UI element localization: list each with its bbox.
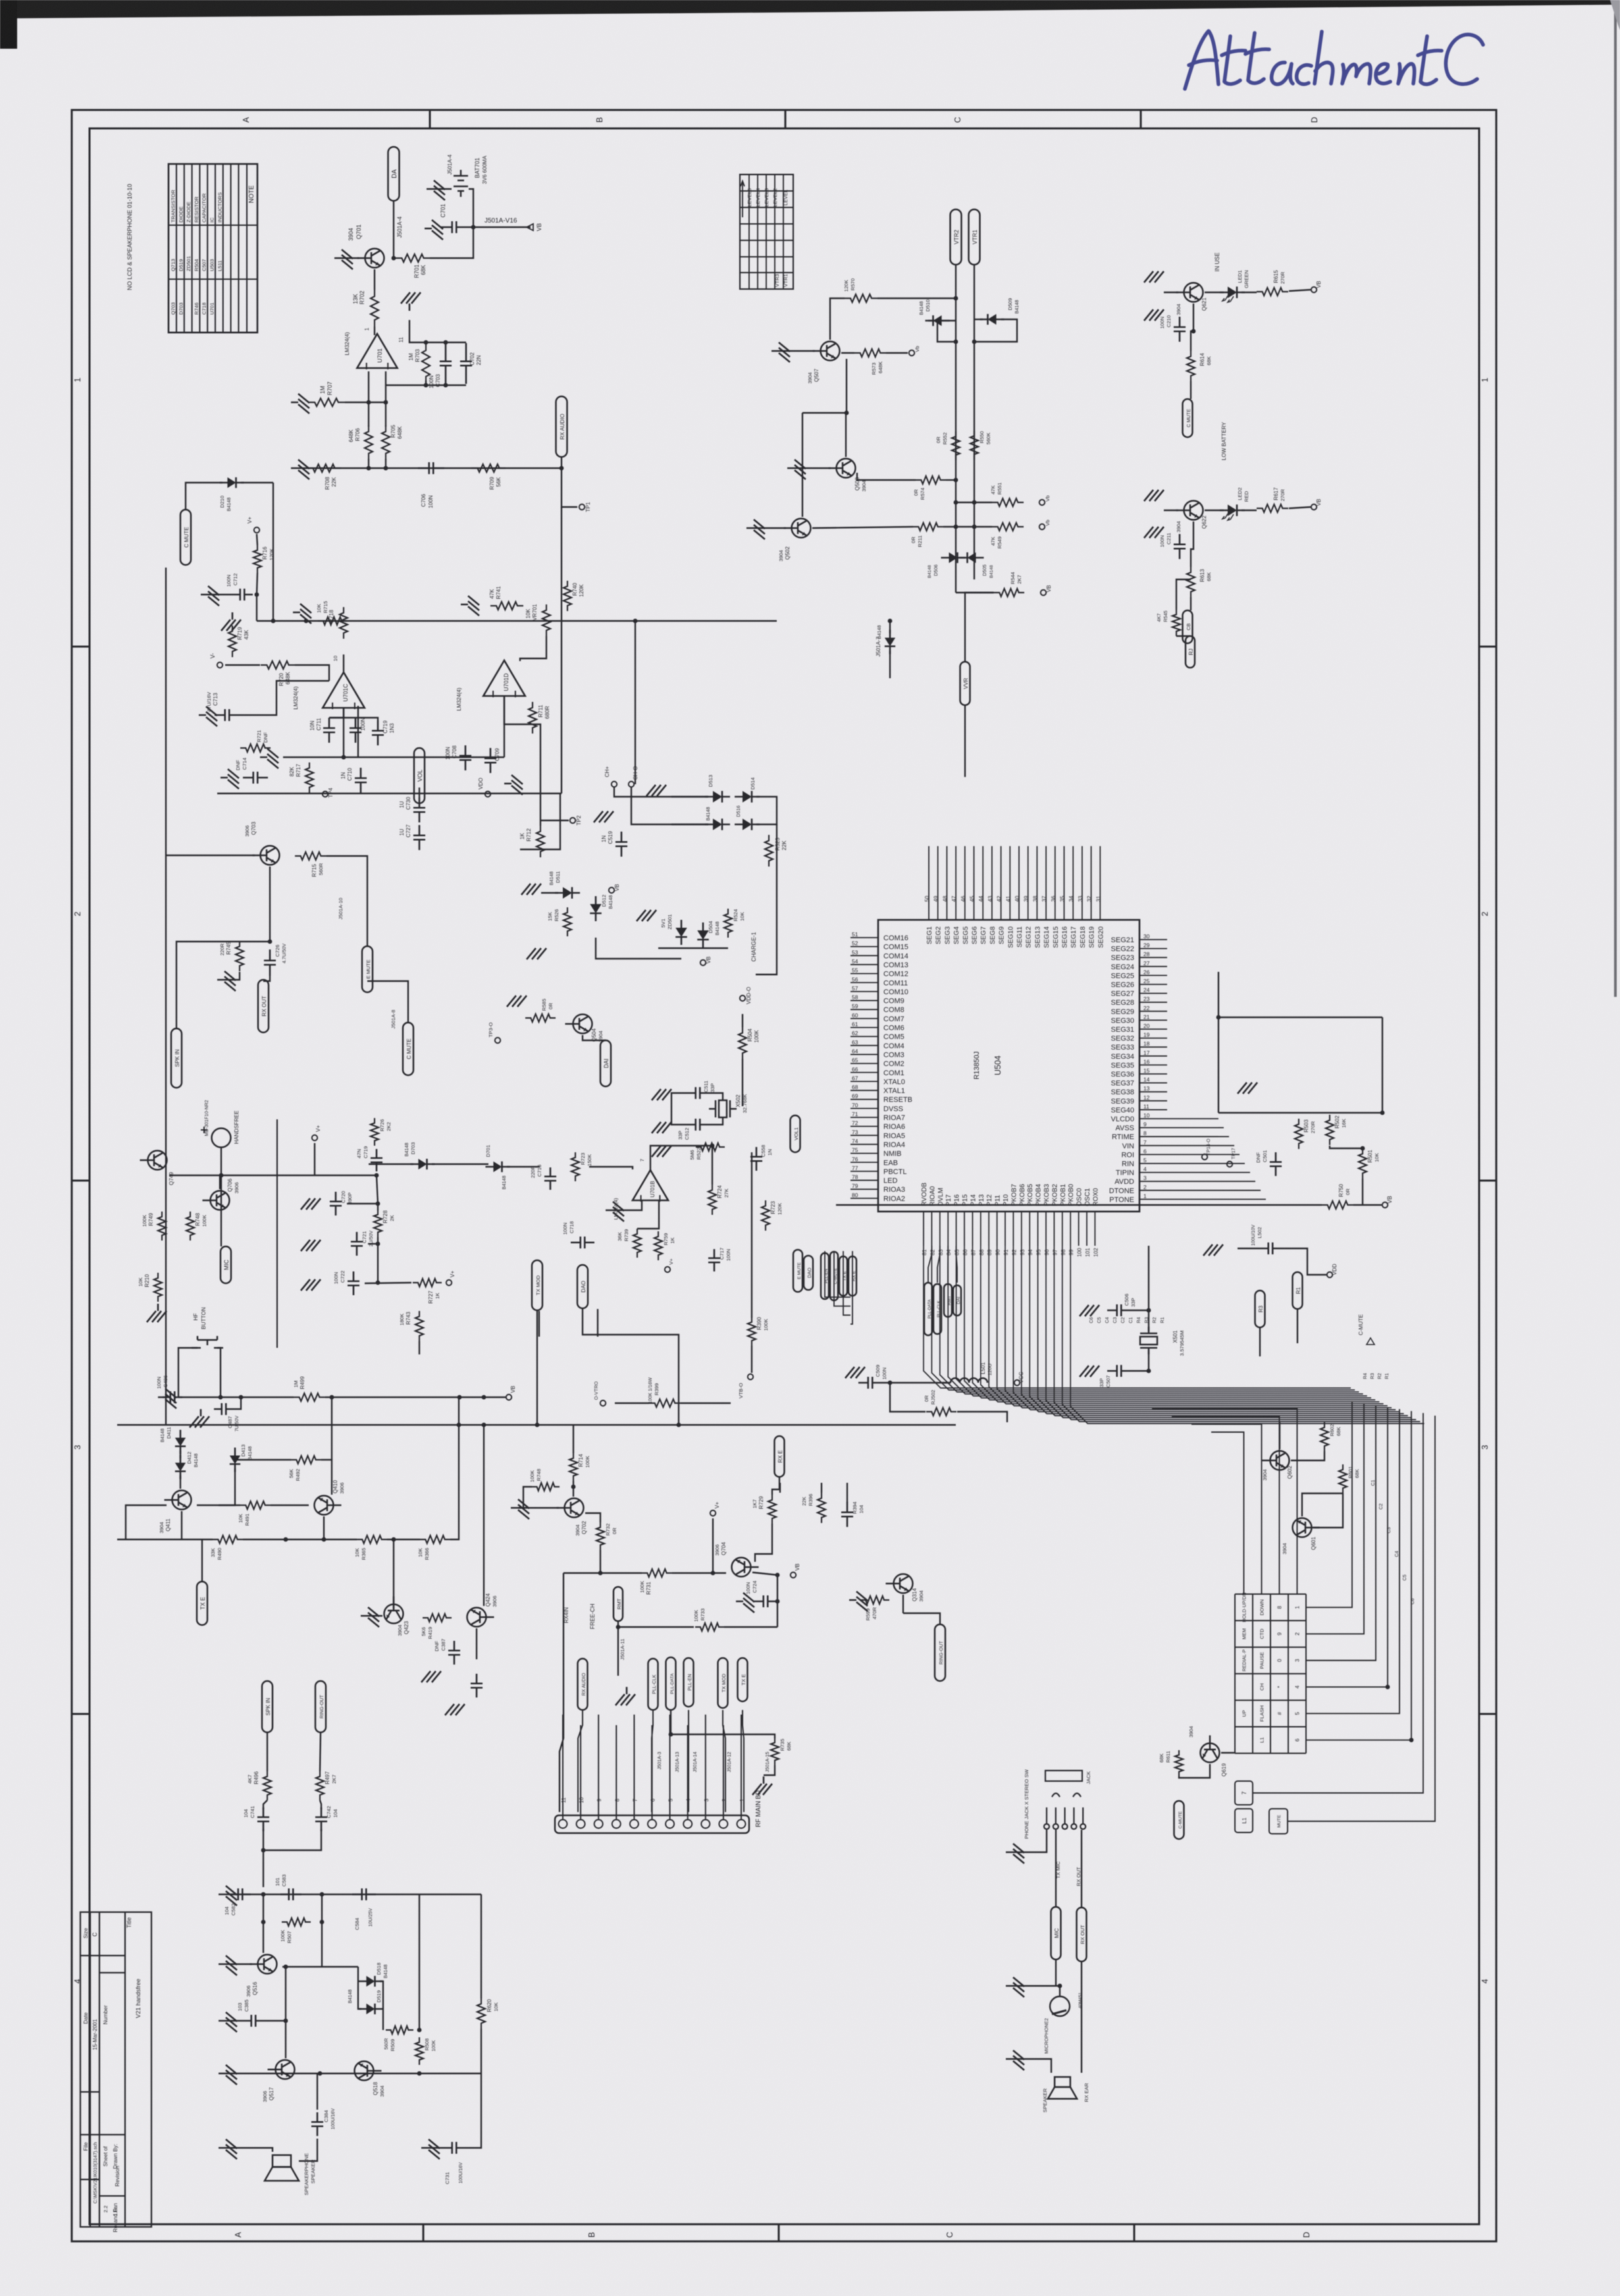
zener ZD501 [675, 920, 687, 945]
wire q702 gnd [518, 1507, 559, 1508]
wire rj502 [890, 1383, 926, 1412]
capacitor C721 [351, 1232, 363, 1256]
ground chg4 [527, 948, 546, 959]
wire rail y1205 ext [434, 793, 562, 794]
wire Q701 emitter down [374, 269, 375, 290]
wire bottom pins to pll pills [928, 1246, 931, 1283]
ground hf a [158, 1389, 176, 1408]
junction rail3149 [417, 2071, 422, 2076]
resistor R709 [471, 464, 506, 472]
scan top black bar [0, 0, 1620, 18]
wire keypad columns up to bus [1211, 1432, 1244, 1594]
wire x501 col [1148, 1246, 1149, 1310]
junction rail905 [633, 619, 638, 624]
zone tick top 3 [1140, 110, 1142, 128]
LED LED1 green [1220, 286, 1245, 298]
resistor R720 [261, 661, 295, 669]
capacitor C512 [686, 1119, 710, 1131]
net label VOL [414, 748, 425, 803]
ground hf b [190, 1409, 209, 1428]
wire q411 q410 [197, 1505, 240, 1506]
wire x502 [671, 1093, 686, 1125]
ground x502a [652, 1089, 671, 1100]
resistor R570 [845, 294, 877, 302]
resistor R715b [318, 617, 347, 625]
ground rail ml [260, 749, 278, 768]
wire chain down [802, 413, 803, 517]
wire led1c [1289, 290, 1311, 291]
wire q411 em [181, 1511, 182, 1539]
wire c385 link [226, 2020, 243, 2021]
wire vvr up [965, 593, 994, 662]
capacitor C583 [280, 1888, 301, 1900]
transistor Q518 [355, 2062, 382, 2081]
connector J501A RF MAIN BD [555, 1815, 749, 1833]
net label VTR1 [969, 209, 980, 265]
diode D518 [359, 1976, 383, 1987]
wire btn right [217, 1348, 221, 1397]
capacitor C210 [1174, 317, 1186, 342]
junction c719 [375, 1173, 379, 1178]
net label TX MOD a [532, 1260, 542, 1310]
junction vtr e [954, 525, 958, 529]
resistor R491 [240, 1501, 271, 1509]
ground spk1 [219, 2139, 237, 2159]
wire r732 dn [600, 1550, 601, 1573]
wire d509 right [974, 319, 1017, 342]
wire bus from U504 bottom pins to keypad [924, 1246, 1351, 1388]
resistor R522 [696, 1143, 725, 1151]
diode D510 [926, 315, 950, 326]
diode D210 [220, 477, 244, 488]
ground x501a [1080, 1305, 1099, 1316]
zone tick right 2 [1479, 1180, 1496, 1182]
wire q601 c [1302, 1493, 1343, 1516]
resistor R719 [228, 626, 236, 657]
transistor Q706 [203, 1191, 230, 1210]
wire r735 dn [764, 1765, 775, 1775]
resistor R549 [992, 523, 1024, 531]
op-amp U701A [357, 334, 397, 369]
capacitor C718 [571, 1237, 594, 1248]
wire d rail3 [507, 1166, 540, 1167]
terminal VDO [485, 791, 490, 797]
resistor R599 [860, 1596, 889, 1604]
net label DA [388, 147, 400, 201]
wire q703 em down [269, 867, 271, 942]
resistor R365 [357, 1535, 387, 1543]
pushbutton HF [192, 1336, 223, 1348]
junction c741 [261, 1848, 266, 1853]
net label R1 pill [1293, 1272, 1303, 1309]
net label C-MUTE c [830, 1252, 838, 1300]
ground q423 [361, 1607, 379, 1627]
rail 2877 [226, 1894, 419, 1895]
resistor R726b [371, 1118, 379, 1146]
capacitor C486 [163, 1391, 182, 1403]
wire btn left [178, 1348, 197, 1397]
ground bl rail1 [219, 1886, 237, 1906]
mic MB-301F handsfree [212, 1129, 231, 1148]
junction l501 [888, 1381, 893, 1385]
diode D516 [735, 818, 760, 830]
wire caps top rail [329, 718, 378, 720]
ground R719 [221, 612, 241, 631]
wire q516 node [282, 1966, 358, 1967]
wire r614 pill [1190, 381, 1191, 399]
resistor R574 [916, 476, 946, 484]
wire mic down [221, 1147, 222, 1246]
resistor R496 [263, 1771, 271, 1800]
wire drop 504 [331, 1397, 332, 1460]
junction hf [219, 1395, 223, 1400]
wire d509 left [974, 319, 983, 320]
wire x502c [710, 1118, 723, 1125]
battery BAT701 [454, 170, 468, 197]
junction q703em [268, 940, 273, 944]
wire q507 em [841, 352, 854, 354]
net label RX OUT c2 [1077, 1908, 1087, 1962]
ground q507 [771, 342, 790, 362]
resistor R740 [563, 581, 571, 611]
wire q504 down [583, 1035, 606, 1040]
wire q516 gnd [226, 1963, 252, 1965]
wire c487 stub [234, 1397, 241, 1409]
wire c731 link [429, 2147, 442, 2149]
resistor R545 [1172, 610, 1180, 636]
net label VOL1 [791, 1115, 800, 1152]
junction rail943 [271, 619, 276, 624]
wire txmod drop [536, 1311, 538, 1425]
wire r501 node [1330, 1146, 1363, 1148]
wire spine434 [285, 1967, 286, 2058]
wire riser a [964, 705, 966, 777]
wire c731 up [466, 2073, 481, 2148]
wire r50x rail2 [1330, 1112, 1382, 1113]
capacitor C746 [311, 2112, 323, 2136]
wire c385 r [264, 2020, 286, 2021]
wire u701d out [504, 697, 540, 826]
diode D411 [175, 1430, 186, 1455]
capacitor C724 [754, 1595, 777, 1607]
wire q602 c [1279, 1422, 1280, 1449]
wire d413 col [219, 1468, 235, 1505]
wire d210 col [273, 483, 274, 621]
terminal VB r544 [1041, 590, 1046, 595]
wire r706 up [368, 402, 369, 427]
wire txmod col [538, 1311, 540, 1337]
wire q410 em [323, 1516, 325, 1539]
diode D413 [230, 1448, 240, 1472]
wire R701 to VB rail [430, 227, 473, 258]
wire pill risers [578, 1710, 583, 1812]
wire rxout long [276, 1119, 278, 1348]
inductor L501 [943, 1378, 987, 1383]
resistor R551 [992, 498, 1024, 506]
junction led1 [1191, 329, 1196, 334]
ground charge2 [637, 910, 656, 921]
transistor Q504 [565, 1015, 592, 1034]
resistor R526 [563, 907, 571, 936]
terminal V+ tl [254, 527, 259, 533]
junction r714 [571, 1485, 576, 1489]
wire vr701 node [520, 636, 546, 661]
wire opamp inputs down [368, 371, 369, 402]
terminal V- ml [217, 662, 222, 668]
MUTE box [1269, 1809, 1288, 1834]
wire r716 up [257, 534, 257, 545]
wire C730 to VOL [419, 788, 420, 797]
resistor R524 [724, 909, 732, 938]
resistor R614 [1187, 351, 1195, 381]
wire q424 em [476, 1628, 477, 1659]
wire pill to rail [561, 458, 562, 468]
capacitor C726 [264, 949, 276, 976]
terminal Vb q507 [909, 350, 914, 356]
capacitor C582 [230, 1888, 251, 1900]
transistor Q410 [315, 1496, 342, 1515]
wire cap bank bottom [386, 385, 466, 386]
level table [740, 174, 793, 289]
wire r396 col [821, 1483, 822, 1493]
wire u701c minus [357, 706, 359, 757]
wire spk gnd [226, 2148, 273, 2152]
wire tx rail [589, 1167, 633, 1169]
wire x489 dn [321, 1894, 323, 1967]
resistor R716 [253, 545, 261, 573]
net label RX E c [849, 1256, 856, 1296]
wire d511 [541, 892, 558, 894]
mic MIC1 [1050, 1996, 1070, 2016]
capacitor C211 [1174, 534, 1186, 559]
resistor R701 [396, 254, 430, 262]
ground led1b [1144, 309, 1164, 321]
net label C-MUTE d [1174, 1801, 1184, 1839]
wire q619 to keypad [1221, 1752, 1235, 1753]
title block [80, 1912, 151, 2227]
junction rail2877 [261, 1892, 266, 1897]
wire r745 gnd [224, 972, 240, 980]
wire rxaudio long [560, 1573, 563, 1812]
capacitor C741 [257, 1807, 269, 1831]
ground r735 [752, 1776, 772, 1795]
ground c389 [445, 1704, 465, 1715]
wire VTR2 line [955, 265, 956, 593]
wire d412 to q411 [180, 1476, 181, 1489]
wire r735 link [671, 1711, 775, 1738]
ground x502c [652, 1146, 671, 1157]
wire u701d chain [504, 697, 505, 757]
wire q601 b [1313, 1493, 1343, 1528]
wire q622 em [1191, 521, 1193, 567]
resistor R613 [1187, 567, 1195, 597]
resistor VR701 [542, 604, 550, 636]
wire lower rail [298, 467, 562, 469]
terminal Vb r551 [1039, 500, 1045, 505]
net label E MUTE a [362, 946, 373, 992]
ground x501b [1080, 1366, 1099, 1377]
terminal Vb r549 [1039, 524, 1045, 529]
capacitor R394 [841, 1502, 853, 1527]
diode D512 [590, 896, 602, 921]
ground led2b [1144, 527, 1164, 538]
wire R702 to opamp [374, 327, 375, 335]
rail 2122 [178, 1397, 294, 1398]
terminal V+ b [710, 1510, 716, 1516]
junction capbank [424, 340, 429, 345]
resistor R615 [1257, 288, 1288, 296]
wire q507 up [830, 298, 845, 340]
resistor R733b [571, 1152, 579, 1181]
wire q502 rail [812, 527, 913, 528]
net label RX OUT a [258, 980, 269, 1032]
wire C713 node [240, 699, 276, 715]
capacitor C727 [413, 825, 425, 850]
wire R707 to node [345, 402, 386, 403]
wire l502b [1238, 1248, 1257, 1249]
transistor Q424 [467, 1608, 494, 1627]
wire u701b out [650, 1146, 712, 1185]
wire v+ dn [712, 1518, 714, 1573]
terminal VDD chg [740, 996, 745, 1001]
test point TP3 [495, 1038, 500, 1043]
wire r492 link [235, 1459, 291, 1460]
ground led1a [1144, 271, 1164, 282]
terminal VB right [1382, 1202, 1388, 1208]
capacitor C519 [615, 832, 627, 857]
wire ic right drop [1218, 972, 1219, 1113]
ground l501 [845, 1367, 865, 1378]
wire r573 vb [886, 352, 908, 354]
wire r620 dn [481, 2029, 482, 2073]
ground c712 [201, 586, 219, 606]
ground c731 [421, 2139, 440, 2159]
wire keypad rows to column bus [1306, 1401, 1352, 1607]
resistor R617 [1257, 504, 1288, 512]
junction dots keypad bus [1386, 1685, 1390, 1690]
resistor R721 [240, 744, 271, 752]
wire R720 to opamp [295, 665, 329, 681]
resistor R504 [739, 1027, 746, 1059]
resistor R717 [305, 762, 313, 793]
resistor R723 [762, 1200, 770, 1231]
junction mic [1058, 1984, 1062, 1989]
terminal VCC [1014, 1380, 1020, 1385]
wire c721 link [368, 1243, 378, 1244]
resistor R211 [913, 523, 943, 531]
zone tick top 2 [785, 110, 787, 128]
wire dao drop [583, 1309, 679, 1425]
wire d210 right [241, 482, 273, 483]
wire rail2338 c [387, 1539, 420, 1540]
wire led2c [1289, 507, 1311, 508]
ground at C701 [425, 220, 443, 240]
resistor R706 [365, 425, 373, 460]
ground led2a [1144, 490, 1164, 501]
wire r50x rail [1218, 1112, 1330, 1113]
transistor Q507 [813, 342, 840, 361]
wire r394 col [847, 1483, 848, 1503]
wire U701C out [343, 708, 344, 757]
wire r620 top [481, 1894, 482, 1998]
wire d510 down [937, 321, 956, 342]
wire rail 1205 [217, 793, 434, 794]
rail 3149 [226, 2073, 481, 2074]
wire gnd to Q701 [342, 257, 359, 259]
capacitor C712 [232, 589, 253, 601]
junction vtr d [954, 500, 958, 505]
wire charge rails [756, 863, 777, 974]
capacitor C719c [371, 1149, 382, 1171]
junction node VB rail [471, 225, 476, 230]
wire c722 link [365, 1283, 411, 1283]
wire led2 [1205, 510, 1224, 511]
wire txe up [201, 1539, 203, 1582]
wire caps bottom rail [283, 757, 408, 758]
transistor Q516 [250, 1955, 277, 1974]
wire mic1 [1013, 1986, 1060, 1996]
zone tick bottom 3 [1134, 2224, 1136, 2241]
capacitor C719 [372, 720, 384, 745]
resistor R724 [708, 1185, 716, 1215]
wire d517b [889, 651, 891, 678]
junction vtr2 c [954, 478, 958, 483]
wire rail2471 b [724, 1626, 777, 1628]
test point TP2 [570, 818, 575, 823]
wire rxout down [1081, 1962, 1082, 2073]
net label RING-OUT b [315, 1681, 326, 1732]
net label PLL-DATA b [924, 1283, 932, 1335]
resistor R390 [748, 1317, 756, 1346]
net label C MUTE tl [180, 510, 191, 565]
junction r735 [669, 1732, 673, 1737]
junction q516 [284, 1965, 288, 1969]
wire r50x drop [1382, 1017, 1383, 1113]
net label RMT [944, 1284, 952, 1317]
ground q516 [219, 1956, 237, 1975]
wire r714 up [573, 1425, 574, 1453]
wire q508 up [845, 413, 847, 457]
resistor R419 [423, 1614, 452, 1622]
wire jack gnd [1013, 1830, 1047, 1852]
wire rail 1150b [408, 757, 504, 758]
wire r390 dn [751, 1346, 752, 1373]
diode D505 [960, 552, 984, 563]
wire mic pill down [1055, 1960, 1057, 1986]
resistor R749 [158, 1212, 166, 1241]
ground plls [615, 1687, 635, 1705]
net label RX AUDIO [556, 396, 567, 457]
wire q621 em [1191, 304, 1193, 351]
junction c722 [376, 1281, 380, 1285]
net label PLL-EN [684, 1658, 694, 1707]
net label TX E c [839, 1256, 847, 1296]
net label PLL-CLK b [933, 1284, 941, 1334]
wire q507 chain [802, 359, 847, 413]
diode D506 [941, 552, 966, 563]
wire q619 base [1179, 1764, 1210, 1778]
net label TX MOD b [718, 1658, 728, 1708]
terminal CH- [629, 782, 634, 787]
junction vtr2 b [954, 340, 958, 344]
wire r718 dn [343, 654, 344, 672]
wire spk in col [176, 942, 270, 1029]
wire r1 pill down [1297, 1309, 1298, 1343]
wire r496 c741 [263, 1800, 267, 1809]
rail 1785 [169, 1175, 377, 1176]
junction Q701 collector [392, 256, 396, 261]
junction railB [457, 1423, 461, 1428]
